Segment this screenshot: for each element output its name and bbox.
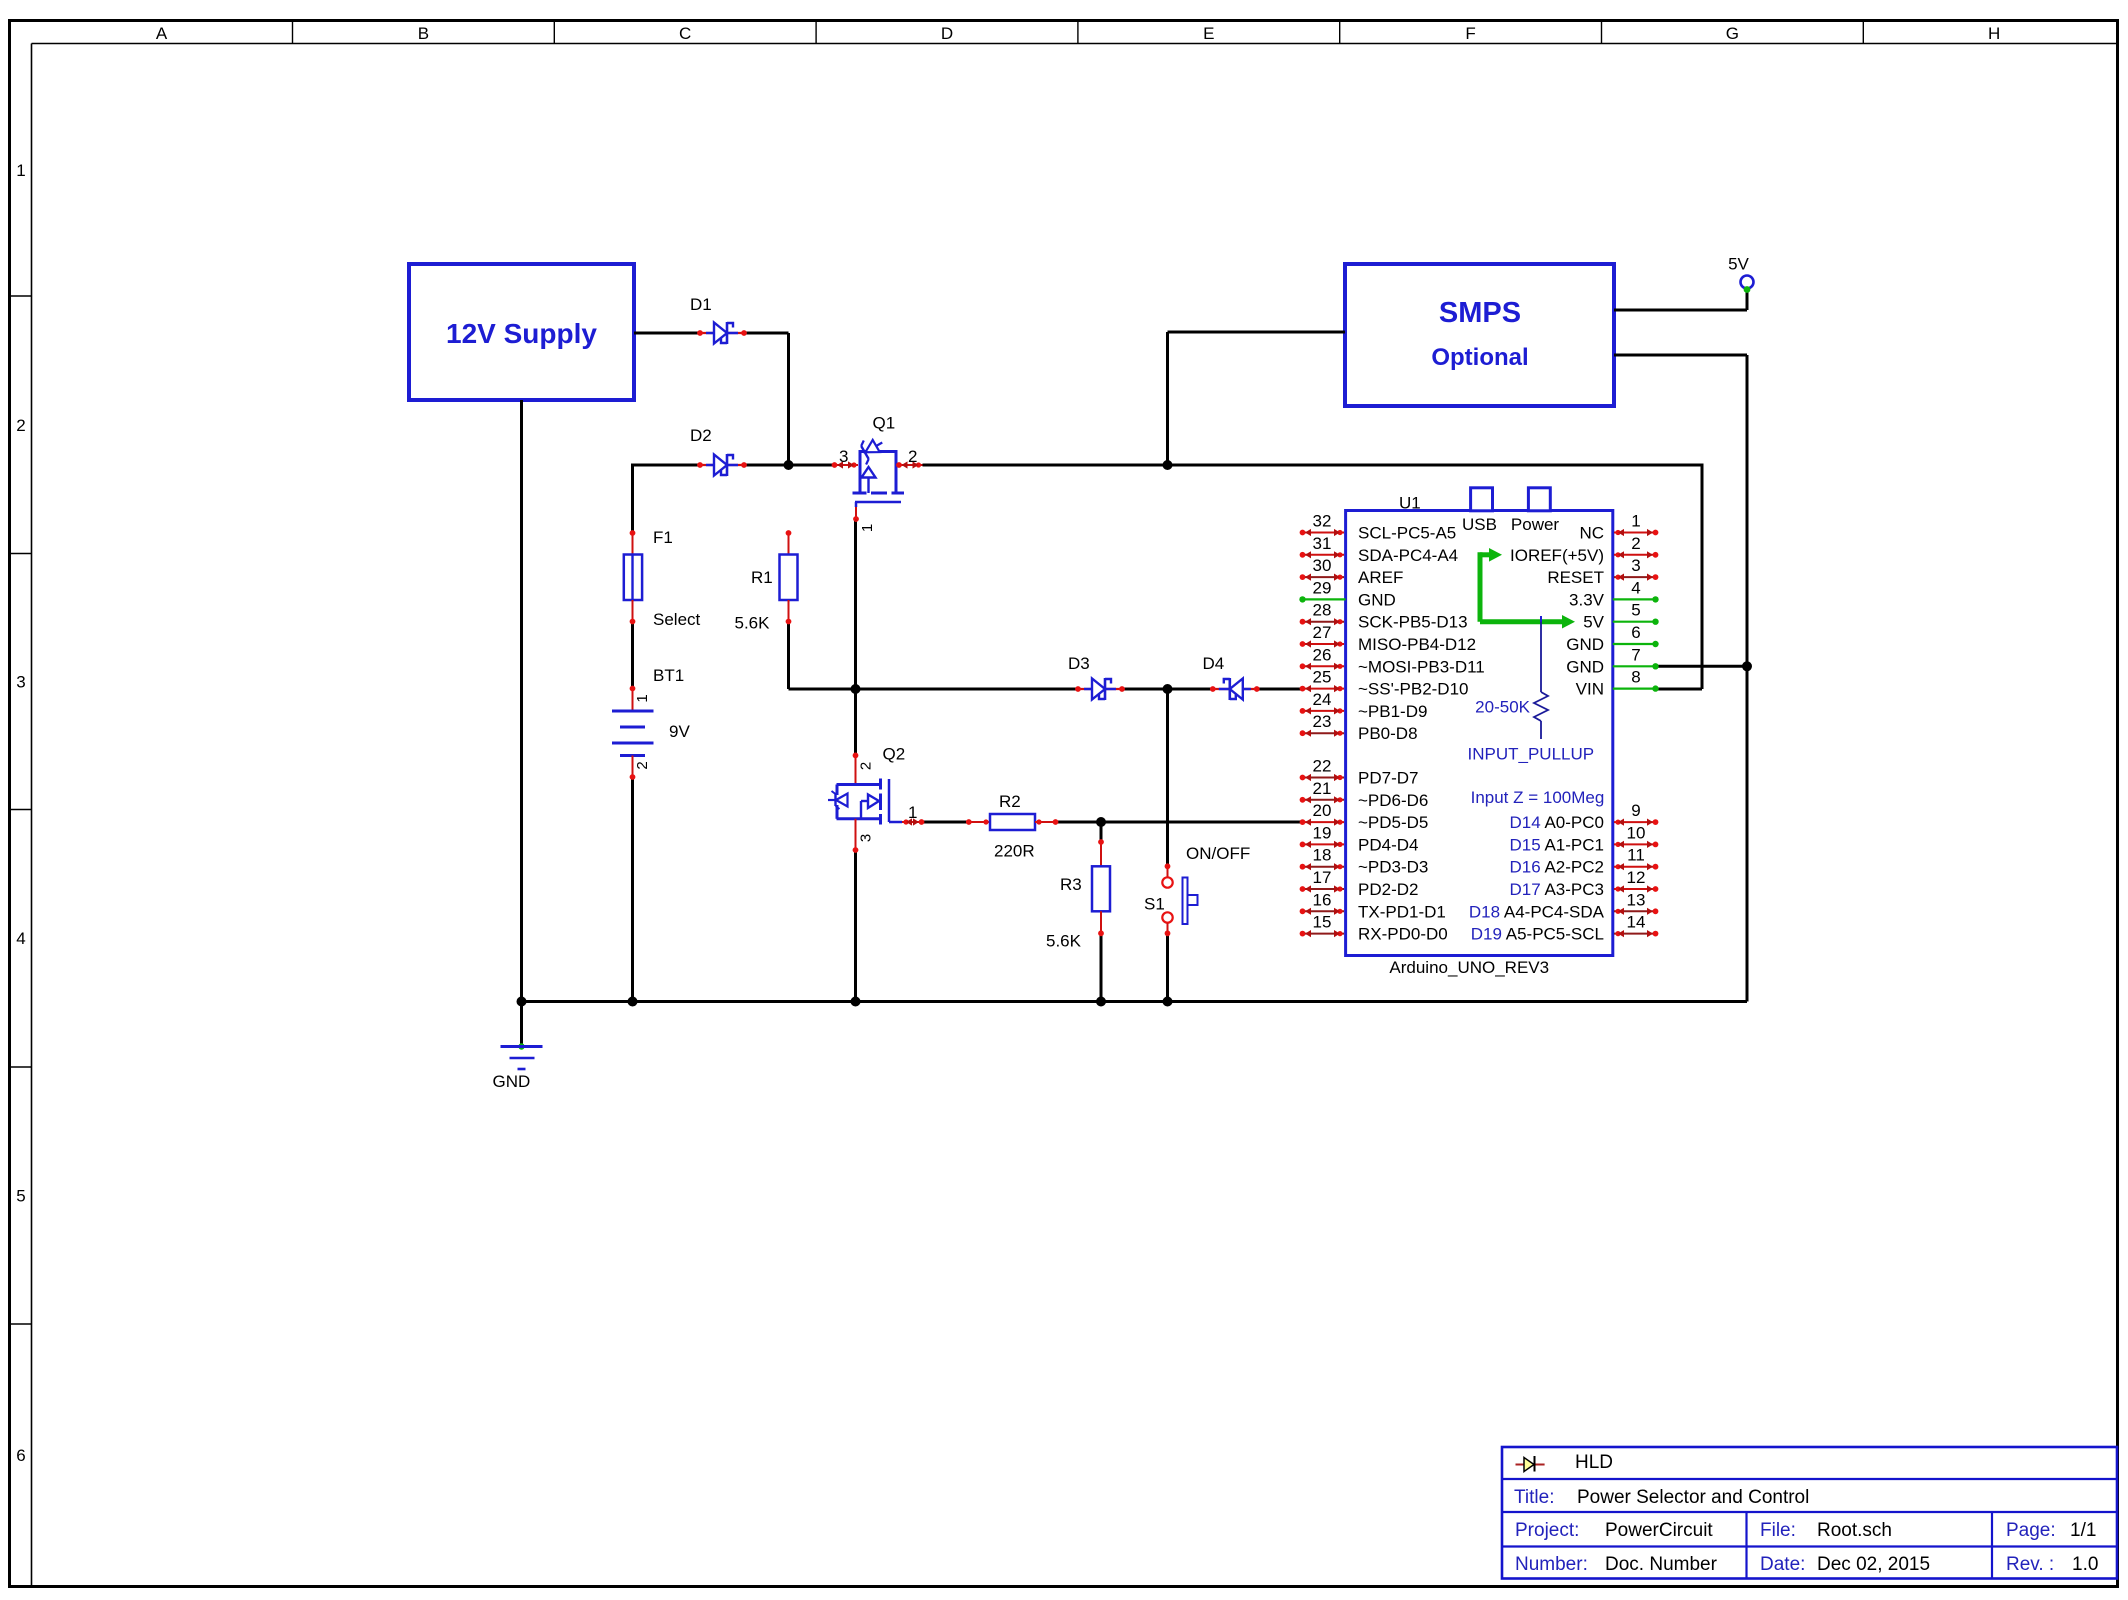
wire SMPS lower output down right side — [1614, 355, 1747, 1002]
U1 pin 23 PB0-D8 — [1300, 712, 1418, 743]
row label 6 — [16, 1446, 25, 1465]
row divider 1 — [11, 295, 32, 297]
U1 pin 28 SCK-PB5-D13 — [1300, 601, 1468, 632]
U1 label INPUT_PULLUP — [1468, 745, 1595, 764]
column divider 7 — [1862, 21, 1864, 44]
svg-text:5V: 5V — [1583, 613, 1604, 632]
row label 5 — [16, 1187, 25, 1206]
svg-text:32: 32 — [1313, 512, 1332, 531]
svg-text:8: 8 — [1631, 668, 1640, 687]
svg-text:~SS'-PB2-D10: ~SS'-PB2-D10 — [1358, 680, 1469, 699]
svg-text:22: 22 — [1313, 757, 1332, 776]
node bus S1 — [1163, 997, 1173, 1007]
column divider 1 — [292, 21, 294, 44]
svg-text:U1: U1 — [1399, 494, 1421, 513]
svg-text:GND: GND — [1566, 635, 1604, 654]
svg-text:15: 15 — [1313, 913, 1332, 932]
svg-text:NC: NC — [1579, 524, 1604, 543]
title block Project cell — [1515, 1520, 1713, 1541]
U1 pin 26 ~MOSI-PB3-D11 — [1300, 645, 1485, 676]
U1 pin 18 ~PD3-D3 — [1300, 846, 1429, 877]
svg-text:20-50K: 20-50K — [1475, 698, 1530, 717]
node R2/R3 junction — [1096, 817, 1106, 827]
U1 pin 30 AREF — [1300, 556, 1404, 587]
svg-text:D4: D4 — [1203, 654, 1225, 673]
svg-text:D15 A1-PC1: D15 A1-PC1 — [1509, 835, 1604, 854]
svg-text:R3: R3 — [1060, 875, 1082, 894]
svg-text:3.3V: 3.3V — [1569, 590, 1605, 609]
svg-text:Power Selector and Control: Power Selector and Control — [1577, 1487, 1809, 1508]
svg-text:Project:: Project: — [1515, 1520, 1579, 1541]
svg-text:2: 2 — [634, 761, 651, 769]
inner frame line top — [32, 43, 2118, 45]
wire S1 bottom to ground bus — [1166, 933, 1169, 1001]
svg-text:D14 A0-PC0: D14 A0-PC0 — [1509, 813, 1604, 832]
row divider 2 — [11, 553, 32, 555]
svg-text:D19 A5-PC5-SCL: D19 A5-PC5-SCL — [1471, 925, 1604, 944]
svg-text:Dec 02, 2015: Dec 02, 2015 — [1817, 1554, 1930, 1575]
U1 pin 29 GND — [1299, 578, 1395, 609]
op-amp U1 Arduino_UNO_REV3 body — [1346, 494, 1613, 956]
svg-text:5: 5 — [16, 1187, 25, 1206]
svg-text:1: 1 — [908, 803, 917, 822]
svg-text:1: 1 — [16, 161, 25, 180]
svg-text:BT1: BT1 — [653, 666, 684, 685]
svg-text:2: 2 — [857, 762, 874, 770]
svg-text:Input Z = 100Meg: Input Z = 100Meg — [1471, 788, 1605, 807]
row divider 5 — [11, 1323, 32, 1325]
svg-text:R2: R2 — [999, 792, 1021, 811]
U1 pin 15 RX-PD0-D0 — [1300, 913, 1448, 944]
svg-text:~PD6-D6: ~PD6-D6 — [1358, 791, 1428, 810]
node GND pin7 junction — [1742, 661, 1752, 671]
diode D4 — [1203, 654, 1260, 700]
svg-text:~MOSI-PB3-D11: ~MOSI-PB3-D11 — [1358, 657, 1485, 676]
wire corner down to VIN pin 8 — [1657, 464, 1702, 690]
U1 pin 25 ~SS'-PB2-D10 — [1300, 668, 1469, 699]
wire corner to D2 anode — [633, 464, 701, 534]
U1 pin 17 PD2-D2 — [1300, 868, 1419, 899]
column divider 4 — [1077, 21, 1079, 44]
row label 1 — [16, 161, 25, 180]
svg-text:SCL-PC5-A5: SCL-PC5-A5 — [1358, 524, 1456, 543]
svg-text:6: 6 — [16, 1446, 25, 1465]
wire R3 bottom to ground bus — [1100, 933, 1103, 1001]
svg-text:14: 14 — [1627, 913, 1646, 932]
svg-text:INPUT_PULLUP: INPUT_PULLUP — [1468, 745, 1595, 764]
U1 internal IOREF to 5V green arrow — [1480, 548, 1575, 629]
column label E — [1203, 24, 1214, 43]
svg-text:3: 3 — [839, 447, 848, 466]
column divider 3 — [815, 21, 817, 44]
svg-text:12V Supply: 12V Supply — [446, 318, 597, 349]
svg-text:PowerCircuit: PowerCircuit — [1605, 1520, 1713, 1541]
wire D1 to corner down to D2 line — [744, 333, 789, 467]
title block File cell — [1760, 1520, 1892, 1541]
U1 pin 19 PD4-D4 — [1300, 823, 1419, 854]
svg-text:Rev. :: Rev. : — [2006, 1554, 2054, 1575]
wire R3 node down — [1100, 822, 1103, 842]
svg-text:21: 21 — [1313, 779, 1332, 798]
block SMPS (Optional) — [1345, 264, 1614, 406]
svg-text:1: 1 — [859, 524, 876, 532]
svg-text:B: B — [418, 24, 429, 43]
svg-text:11: 11 — [1627, 846, 1645, 865]
column label B — [418, 24, 429, 43]
svg-text:E: E — [1203, 24, 1214, 43]
svg-text:7: 7 — [1631, 645, 1640, 664]
diode D1 — [690, 295, 747, 344]
svg-text:Page:: Page: — [2006, 1520, 2056, 1541]
svg-text:5.6K: 5.6K — [1046, 932, 1082, 951]
svg-text:Arduino_UNO_REV3: Arduino_UNO_REV3 — [1389, 958, 1549, 977]
title block Page cell — [2006, 1520, 2096, 1541]
U1 pin 5 5V — [1583, 601, 1658, 632]
svg-text:D3: D3 — [1068, 654, 1090, 673]
svg-text:31: 31 — [1313, 534, 1332, 553]
svg-text:H: H — [1988, 24, 2000, 43]
node D3/D4 junction — [1163, 684, 1173, 694]
U1 pin 2 IOREF(+5V) — [1510, 534, 1658, 565]
svg-text:PB0-D8: PB0-D8 — [1358, 724, 1418, 743]
U1 pin 31 SDA-PC4-A4 — [1300, 534, 1459, 565]
column divider 5 — [1339, 21, 1341, 44]
svg-text:G: G — [1726, 24, 1739, 43]
svg-text:D18 A4-PC4-SDA: D18 A4-PC4-SDA — [1469, 902, 1605, 921]
row label 3 — [16, 673, 25, 692]
svg-text:27: 27 — [1313, 623, 1332, 642]
node bus battery — [628, 997, 638, 1007]
svg-text:5V: 5V — [1728, 255, 1749, 274]
svg-text:RX-PD0-D0: RX-PD0-D0 — [1358, 925, 1448, 944]
wire D3 cathode to D4 node and down to S1 — [1123, 689, 1213, 866]
svg-text:23: 23 — [1313, 712, 1332, 731]
svg-text:18: 18 — [1313, 846, 1332, 865]
svg-text:SDA-PC4-A4: SDA-PC4-A4 — [1358, 546, 1458, 565]
svg-text:PD2-D2: PD2-D2 — [1358, 880, 1418, 899]
wire Q1 pin 2 to VIN corner — [923, 464, 1703, 467]
column label F — [1465, 24, 1475, 43]
svg-text:3: 3 — [857, 834, 874, 842]
diode D2 — [690, 426, 747, 476]
svg-text:9V: 9V — [669, 722, 690, 741]
svg-text:HLD: HLD — [1575, 1452, 1613, 1473]
svg-text:3: 3 — [16, 673, 25, 692]
svg-text:1: 1 — [634, 694, 651, 702]
svg-text:Q2: Q2 — [883, 745, 906, 764]
column label D — [941, 24, 953, 43]
column label H — [1988, 24, 2000, 43]
title block Number cell — [1515, 1554, 1718, 1575]
title block Title row — [1514, 1487, 1809, 1508]
fuse F1 (Select) — [624, 528, 701, 629]
wire Q1 gate down to Q2 drain — [854, 521, 857, 755]
inner frame line left — [31, 44, 33, 1586]
U1 pin 32 SCL-PC5-A5 — [1300, 512, 1457, 543]
row label 4 — [16, 929, 25, 948]
diode D3 — [1068, 654, 1125, 700]
svg-text:D: D — [941, 24, 953, 43]
svg-text:Q1: Q1 — [873, 414, 896, 433]
wire D4 anode to U1 pin 25 — [1256, 688, 1301, 691]
svg-text:SMPS: SMPS — [1439, 297, 1521, 329]
resistor R3 5.6K — [1046, 839, 1110, 950]
svg-text:4: 4 — [1631, 578, 1640, 597]
block 12V Supply — [409, 264, 634, 400]
wire 12V Supply output to D1 — [634, 332, 700, 335]
svg-text:Date:: Date: — [1760, 1554, 1805, 1575]
svg-text:30: 30 — [1313, 556, 1332, 575]
wire R2 to U1 pin 20 — [1057, 821, 1301, 824]
resistor R2 220R — [966, 792, 1059, 861]
title block Date cell — [1760, 1554, 1930, 1575]
U1 pin 12 D17 A3-PC3 — [1509, 868, 1658, 899]
svg-text:~PD5-D5: ~PD5-D5 — [1358, 813, 1428, 832]
wire R1 bottom to D3 node — [789, 622, 1079, 690]
wire SMPS output to 5V terminal — [1614, 291, 1747, 310]
U1 pin 6 GND — [1566, 623, 1658, 654]
svg-text:29: 29 — [1313, 578, 1332, 597]
svg-text:17: 17 — [1313, 868, 1332, 887]
U1 pin 14 D19 A5-PC5-SCL — [1471, 913, 1659, 944]
title block border — [1502, 1447, 2117, 1579]
column label A — [156, 24, 168, 43]
wire fuse to battery — [631, 622, 634, 689]
svg-text:TX-PD1-D1: TX-PD1-D1 — [1358, 902, 1446, 921]
ground bus wire — [522, 1000, 1748, 1003]
node bus R3 — [1096, 997, 1106, 1007]
svg-text:2: 2 — [1631, 534, 1640, 553]
svg-text:25: 25 — [1313, 668, 1332, 687]
svg-text:USB: USB — [1462, 515, 1497, 534]
title block logo diode — [1516, 1456, 1545, 1472]
svg-text:SCK-PB5-D13: SCK-PB5-D13 — [1358, 613, 1468, 632]
ground GND symbol — [493, 1002, 543, 1092]
U1 pin 7 GND — [1566, 645, 1658, 676]
svg-text:10: 10 — [1627, 823, 1646, 842]
svg-text:1/1: 1/1 — [2070, 1520, 2096, 1541]
node bus GND stem — [517, 997, 527, 1007]
column divider 6 — [1601, 21, 1603, 44]
svg-text:D16 A2-PC2: D16 A2-PC2 — [1509, 858, 1604, 877]
wire D2 cathode to Q1 pin 3 — [744, 464, 833, 467]
svg-text:F: F — [1465, 24, 1475, 43]
svg-text:1.0: 1.0 — [2072, 1554, 2098, 1575]
U1 pin 13 D18 A4-PC4-SDA — [1469, 890, 1659, 921]
svg-text:File:: File: — [1760, 1520, 1796, 1541]
U1 pin 21 ~PD6-D6 — [1300, 779, 1429, 810]
svg-text:220R: 220R — [994, 842, 1035, 861]
wire battery to ground bus — [631, 777, 634, 1002]
U1 pin 4 3.3V — [1569, 578, 1659, 609]
svg-text:Root.sch: Root.sch — [1817, 1520, 1892, 1541]
column divider 2 — [553, 21, 555, 44]
battery BT1 9V — [612, 666, 690, 780]
svg-text:S1: S1 — [1144, 895, 1165, 914]
U1 internal pullup resistor 20-50K — [1475, 616, 1548, 739]
svg-text:4: 4 — [16, 929, 25, 948]
node D1/D2 junction — [784, 460, 794, 470]
svg-text:C: C — [679, 24, 691, 43]
svg-text:1: 1 — [1631, 512, 1640, 531]
svg-text:3: 3 — [1631, 556, 1640, 575]
svg-text:Number:: Number: — [1515, 1554, 1588, 1575]
svg-text:2: 2 — [908, 447, 917, 466]
wire GND pin 7 to right vertical — [1657, 665, 1747, 668]
svg-text:16: 16 — [1313, 890, 1332, 909]
switch S1 ON/OFF — [1144, 844, 1250, 936]
U1 pin 22 PD7-D7 — [1300, 757, 1419, 788]
svg-text:R1: R1 — [751, 568, 773, 587]
U1 pin 20 ~PD5-D5 — [1300, 801, 1429, 832]
svg-text:5.6K: 5.6K — [735, 614, 771, 633]
svg-text:RESET: RESET — [1547, 568, 1604, 587]
svg-text:~PD3-D3: ~PD3-D3 — [1358, 858, 1428, 877]
svg-text:13: 13 — [1627, 890, 1646, 909]
svg-text:MISO-PB4-D12: MISO-PB4-D12 — [1358, 635, 1476, 654]
svg-text:PD7-D7: PD7-D7 — [1358, 769, 1418, 788]
wire SMPS input from Q1 output node — [1168, 332, 1346, 467]
wire Q2 source to ground bus — [854, 850, 857, 1002]
svg-text:6: 6 — [1631, 623, 1640, 642]
resistor R1 5.6K — [735, 530, 798, 632]
U1 pin 1 NC — [1579, 512, 1658, 543]
svg-text:Select: Select — [653, 610, 701, 629]
row label 2 — [16, 416, 25, 435]
svg-text:5: 5 — [1631, 601, 1640, 620]
svg-text:28: 28 — [1313, 601, 1332, 620]
U1 part name Arduino_UNO_REV3 — [1389, 958, 1549, 977]
U1 pin 8 VIN — [1576, 668, 1659, 699]
svg-text:A: A — [156, 24, 168, 43]
svg-text:~PB1-D9: ~PB1-D9 — [1358, 702, 1427, 721]
svg-text:24: 24 — [1313, 690, 1332, 709]
svg-text:Title:: Title: — [1514, 1487, 1554, 1508]
U1 pin 27 MISO-PB4-D12 — [1300, 623, 1476, 654]
svg-text:VIN: VIN — [1576, 680, 1604, 699]
row divider 4 — [11, 1066, 32, 1068]
wire Q2 gate to R2 — [923, 821, 967, 824]
svg-text:D17 A3-PC3: D17 A3-PC3 — [1509, 880, 1604, 899]
svg-text:GND: GND — [1358, 590, 1396, 609]
svg-text:GND: GND — [1566, 657, 1604, 676]
svg-text:AREF: AREF — [1358, 568, 1403, 587]
power terminal 5V — [1728, 255, 1753, 293]
node bus Q2 — [851, 997, 861, 1007]
svg-text:19: 19 — [1313, 823, 1332, 842]
svg-text:Doc. Number: Doc. Number — [1605, 1554, 1718, 1575]
row divider 3 — [11, 809, 32, 811]
svg-text:12: 12 — [1627, 868, 1646, 887]
svg-text:F1: F1 — [653, 528, 673, 547]
transistor Q1 P-MOSFET — [832, 414, 923, 533]
U1 Power connector tab — [1511, 488, 1560, 534]
U1 label Input Z = 100Meg — [1471, 788, 1605, 807]
node Q1 gate junction — [851, 684, 861, 694]
transistor Q2 N-MOSFET — [828, 745, 924, 853]
svg-text:IOREF(+5V): IOREF(+5V) — [1510, 546, 1604, 565]
svg-text:D1: D1 — [690, 295, 712, 314]
svg-text:Power: Power — [1511, 515, 1560, 534]
U1 USB connector tab — [1462, 488, 1497, 534]
wire 12V Supply bottom to ground bus — [520, 400, 523, 1002]
U1 pin 3 RESET — [1547, 556, 1658, 587]
U1 pin 9 D14 A0-PC0 — [1509, 801, 1658, 832]
column label G — [1726, 24, 1739, 43]
svg-text:2: 2 — [16, 416, 25, 435]
U1 pin 10 D15 A1-PC1 — [1509, 823, 1658, 854]
title block Rev cell — [2006, 1554, 2098, 1575]
svg-text:Optional: Optional — [1431, 344, 1528, 371]
U1 pin 16 TX-PD1-D1 — [1300, 890, 1446, 921]
svg-text:20: 20 — [1313, 801, 1332, 820]
U1 pin 24 ~PB1-D9 — [1300, 690, 1428, 721]
title block company HLD — [1575, 1452, 1613, 1473]
svg-text:ON/OFF: ON/OFF — [1186, 844, 1250, 863]
U1 pin 11 D16 A2-PC2 — [1509, 846, 1658, 877]
svg-text:26: 26 — [1313, 645, 1332, 664]
svg-text:D2: D2 — [690, 426, 712, 445]
node SMPS input junction — [1163, 460, 1173, 470]
svg-text:GND: GND — [493, 1072, 531, 1091]
svg-text:PD4-D4: PD4-D4 — [1358, 835, 1418, 854]
column label C — [679, 24, 691, 43]
svg-text:9: 9 — [1631, 801, 1640, 820]
